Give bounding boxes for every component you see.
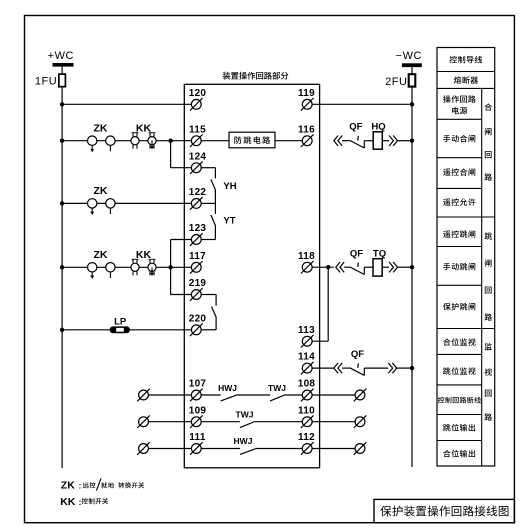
contact QF (breaker aux) row 118 (350, 263, 365, 275)
legend KK description (60, 496, 108, 508)
svg-text:ZK: ZK (94, 249, 108, 261)
svg-text:KK: KK (60, 496, 76, 508)
wire terminal 114 to chevron (312, 367, 334, 369)
terminal 113 (302, 336, 312, 346)
connector chevron right row 118 (389, 262, 393, 272)
node junction on left bus row 120 (60, 102, 64, 106)
wire +WC bar to fuse 1FU (61, 67, 63, 74)
svg-text:ZK: ZK (94, 185, 108, 197)
svg-text:HWJ: HWJ (218, 383, 237, 393)
terminal 119 (302, 99, 312, 109)
coil TQ (tripping coil) (373, 259, 382, 276)
coil HQ (closing coil) (373, 132, 382, 149)
terminal 219 (191, 290, 201, 300)
svg-text:YH: YH (223, 181, 236, 192)
svg-text:113: 113 (298, 325, 315, 336)
wire anti-pump to terminal 116 (275, 140, 302, 142)
svg-text:122: 122 (189, 187, 207, 198)
wire QF to coil HQ (364, 140, 373, 142)
module anti-pump circuit box (229, 132, 275, 148)
wire terminal 219 to contact (201, 294, 216, 296)
connector chevron right row 114 (388, 363, 392, 373)
svg-text:YT: YT (223, 216, 235, 227)
switch ZK contacts row3 (88, 263, 116, 279)
wire chevron to QF contact row 116 (342, 140, 350, 142)
wire terminal 110 to stub right (312, 421, 355, 423)
svg-text:109: 109 (189, 405, 207, 416)
terminal 123 (191, 235, 201, 245)
fuse 2FU (409, 74, 416, 86)
wire -WC bar to fuse 2FU (411, 67, 413, 75)
terminal 116 (302, 136, 312, 146)
node junction on right bus row 118 (410, 265, 414, 269)
terminal 118 (302, 262, 312, 272)
connector chevron left row 114 (334, 363, 338, 373)
wire stub to terminal 109 (148, 421, 191, 423)
terminal 220 (191, 325, 201, 335)
wire contact YT to terminal 123 (201, 239, 215, 241)
wire terminal 108 to stub right (312, 394, 355, 396)
wire terminal 124 to contact YH (201, 167, 215, 169)
legend table row labels (438, 56, 482, 457)
wire TWJ to terminal 110 (254, 421, 303, 423)
switch KK contacts row3 (131, 259, 156, 276)
svg-text:ZK: ZK (94, 123, 108, 135)
terminal 107 (191, 390, 201, 400)
title block box (374, 499, 514, 522)
node junction on left bus row 115 (60, 139, 64, 143)
wire terminal 119 to -WC bus (312, 103, 412, 105)
svg-text:112: 112 (298, 432, 315, 443)
svg-text:QF: QF (349, 122, 362, 133)
terminal 110 (302, 417, 312, 427)
node junction to terminal 124 branch (168, 139, 172, 143)
connector chevron left row 116 (334, 136, 338, 146)
title 保护装置操作回路接线图 (380, 506, 508, 517)
svg-text:119: 119 (298, 88, 315, 99)
wire +WC bus through ZK/KK to terminal 117 (62, 266, 191, 268)
terminal stub left row 109 (139, 417, 149, 427)
terminal 122 (191, 199, 201, 209)
svg-text:LP: LP (114, 316, 127, 327)
terminal 114 (302, 363, 312, 373)
node junction 118/113 (326, 265, 330, 269)
svg-text:TWJ: TWJ (268, 383, 286, 393)
device operation-circuit box (184, 84, 319, 468)
contact QF (breaker aux) row 116 (350, 136, 365, 148)
terminal 112 (302, 444, 312, 454)
fuse 1FU (59, 74, 66, 87)
contact TWJ row 109 (240, 422, 254, 428)
wire chevron to -WC bus row 114 (397, 367, 412, 369)
svg-text:219: 219 (189, 278, 207, 289)
terminal 124 (191, 163, 201, 173)
wire chevron to -WC bus row 116 (398, 140, 413, 142)
terminal stub left row 107 (139, 390, 149, 400)
svg-text:120: 120 (189, 88, 207, 99)
wire stub to terminal 107 (148, 394, 191, 396)
svg-text:110: 110 (298, 405, 315, 416)
terminal stub right row 108 (355, 390, 365, 400)
wire coil HQ to chevron right (382, 140, 389, 142)
svg-text:2FU: 2FU (385, 76, 407, 88)
svg-text:115: 115 (189, 124, 206, 135)
node junction on left bus row 220 (60, 328, 64, 332)
wire QF to chevron right row 114 (364, 367, 388, 369)
svg-text::: : (79, 482, 82, 491)
terminal 108 (302, 390, 312, 400)
contact QF (breaker aux NC) row 114 (350, 363, 365, 375)
terminal stub right row 112 (355, 444, 365, 454)
node junction on left bus row 122 (60, 201, 64, 205)
wire coil TQ to chevron right (382, 266, 389, 268)
contact YH (closing pushbutton) (211, 168, 216, 204)
svg-text:HWJ: HWJ (234, 436, 253, 446)
svg-text:TWJ: TWJ (236, 409, 254, 419)
node junction on right bus row 114 (410, 366, 414, 370)
contact HWJ row 107 (221, 395, 236, 401)
svg-text:QF: QF (351, 349, 364, 360)
contact 219-220 (device link) (212, 295, 217, 330)
device box title 装置操作回路部分 (223, 72, 289, 80)
svg-text:118: 118 (298, 251, 315, 262)
legend ZK description (61, 478, 144, 491)
node junction branch row 117 (168, 265, 172, 269)
svg-text:TQ: TQ (373, 248, 386, 259)
svg-text:QF: QF (350, 248, 363, 259)
svg-text:116: 116 (298, 124, 315, 135)
contact TWJ row 107 (270, 395, 284, 401)
contact HWJ row 111 (240, 449, 256, 455)
contact YT (tripping pushbutton) (211, 203, 216, 239)
wire terminal 123 to branch (171, 239, 192, 241)
svg-text:117: 117 (189, 251, 206, 262)
svg-text:+WC: +WC (48, 50, 74, 62)
wire +WC bus through ZK to terminal 122 (62, 202, 191, 204)
wire HWJ to terminal 112 (256, 448, 303, 450)
wire terminal 118 to chevron (312, 266, 334, 268)
wire +WC bus through LP to terminal 220 (62, 329, 191, 331)
wire terminal 109 to contact TWJ (201, 421, 240, 423)
switch ZK contacts row1 (88, 136, 116, 152)
wire branch 123 down to 219 (170, 240, 172, 295)
terminal 120 (191, 99, 201, 109)
connector chevron right row 116 (389, 136, 393, 146)
svg-text:124: 124 (189, 151, 207, 162)
wire terminal 111 to contact HWJ (201, 448, 240, 450)
module anti-pump circuit 防跳电路 wire in (201, 140, 229, 142)
terminal 117 (191, 262, 201, 272)
node junction on right bus row 116 (410, 139, 414, 143)
wire HWJ to TWJ row 107 (236, 394, 270, 396)
module anti-pump circuit label 防跳电路 (234, 136, 270, 144)
wire +WC bus through ZK/KK to terminal 115 (62, 140, 191, 142)
node junction on left bus row 117 (60, 265, 64, 269)
wire terminal 107 to contact HWJ (201, 394, 221, 396)
wire branch to terminal 219 (171, 294, 192, 296)
wire branch to terminal 124 (171, 167, 192, 169)
wire TWJ to terminal 108 (284, 394, 302, 396)
svg-text:ZK: ZK (61, 480, 75, 492)
svg-text:220: 220 (189, 313, 207, 324)
wire contact YH to terminal 122 (201, 202, 215, 204)
svg-text:−WC: −WC (396, 50, 422, 62)
terminal 111 (191, 444, 201, 454)
wire QF to coil TQ (364, 266, 373, 268)
wire stub to terminal 111 (148, 448, 191, 450)
svg-text:114: 114 (298, 352, 315, 363)
busbar +WC (53, 63, 74, 67)
svg-text:108: 108 (298, 379, 316, 390)
wire right bus vertical (411, 86, 413, 467)
svg-text:1FU: 1FU (35, 76, 57, 88)
wire chevron to -WC bus row 118 (398, 266, 413, 268)
svg-text:123: 123 (189, 223, 207, 234)
svg-text:HQ: HQ (371, 122, 385, 133)
wire chevron to QF contact row 118 (344, 266, 350, 268)
wire branch junction 115 down to 124 (170, 141, 172, 168)
node junction on right bus row 119 (410, 102, 414, 106)
wire left bus vertical (61, 87, 63, 468)
busbar -WC (402, 63, 422, 67)
wire terminal 112 to stub right (312, 448, 355, 450)
svg-text::: : (79, 498, 82, 507)
terminal 109 (191, 417, 201, 427)
wire terminal 113 up to row 118 (312, 340, 328, 342)
svg-text:111: 111 (189, 432, 206, 443)
svg-text:107: 107 (189, 379, 207, 390)
legend table grid (437, 48, 495, 467)
switch KK contacts row1 (131, 133, 156, 150)
legend table group labels (484, 103, 492, 420)
terminal stub left row 111 (139, 444, 149, 454)
wire +WC bus to terminal 120 (62, 103, 191, 105)
wire contact to terminal 220 (201, 329, 216, 331)
terminal stub right row 110 (355, 417, 365, 427)
switch ZK contacts row2 (88, 199, 116, 215)
link LP (strap) (110, 326, 130, 333)
connector chevron left row 118 (336, 262, 340, 272)
terminal 115 (191, 136, 201, 146)
wire chevron to QF contact row 114 (342, 367, 350, 369)
